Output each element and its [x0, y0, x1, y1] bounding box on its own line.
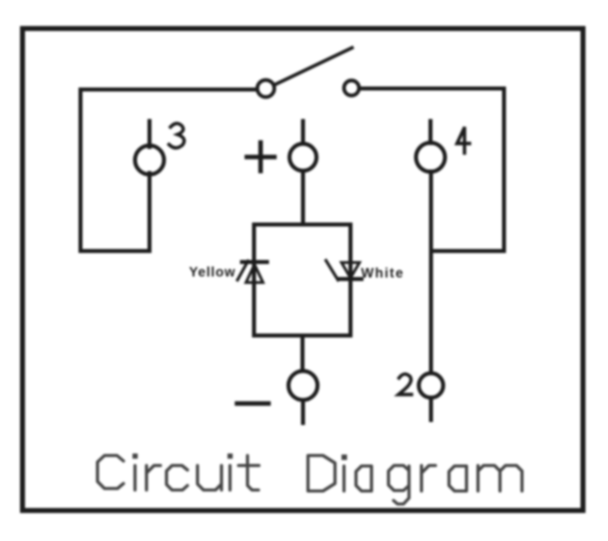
wire: terminal 4 to terminal 2 (through junction node at y=251) [429, 172, 433, 372]
title letter r [147, 466, 161, 491]
label + (plus polarity mark) [247, 143, 275, 172]
switch S1 pole contact circle [257, 80, 274, 97]
label 2 [399, 374, 412, 394]
wire: stub above terminal + [301, 121, 305, 143]
title letter t [239, 456, 260, 491]
title letter r [422, 466, 436, 492]
wire: lamp box bottom to terminal - [301, 336, 305, 372]
title letter a [449, 466, 467, 491]
wire: stub below terminal 2 [429, 398, 433, 420]
wire: stub below terminal - [301, 401, 305, 424]
label 4 [457, 129, 470, 154]
terminal 3 circle [135, 146, 164, 175]
title letter i [228, 466, 231, 491]
label - (minus polarity mark) [237, 401, 269, 406]
terminal + circle [290, 144, 317, 171]
LED D1 yellow: triangle (anode up) [246, 265, 263, 283]
title letter i [133, 466, 136, 491]
svg-text:White: White [361, 266, 403, 281]
title letter u [198, 466, 222, 491]
wire: left branch from switch pole down and to terminal 3 [81, 90, 258, 252]
svg-text:Yellow: Yellow [189, 265, 235, 280]
terminal - circle [289, 371, 318, 400]
LED D2 white: triangle (cathode down) [342, 263, 360, 279]
terminal 4 circle [416, 143, 445, 172]
title letter g [389, 466, 410, 505]
wire: stub above terminal 3 [148, 121, 152, 147]
switch S1 throw contact circle [344, 81, 359, 96]
LED D2 white: emission arrow [326, 261, 338, 281]
title letter D [308, 456, 335, 492]
title letter i [342, 466, 345, 491]
title letter a [356, 466, 372, 491]
label 3 [169, 123, 184, 147]
LED D2 white: cathode bar [340, 277, 362, 281]
lamp enclosure box U1 [254, 225, 351, 336]
title letter c [167, 466, 188, 491]
LED D1 yellow: cathode bar [242, 260, 267, 264]
wire: stub above terminal 4 [429, 121, 433, 143]
title letter C [98, 456, 124, 489]
wire: from switch throw right, down and left to node joining terminals 4/2 [360, 89, 505, 252]
terminal 2 circle [419, 373, 443, 397]
switch S1 lever [275, 48, 353, 85]
LED D1 yellow: emission arrow [238, 261, 249, 280]
title text: Circuit Diagram (chamfered monoline) [98, 454, 523, 505]
title letter m [478, 466, 522, 492]
wire: terminal + down to lamp box top [301, 172, 305, 225]
